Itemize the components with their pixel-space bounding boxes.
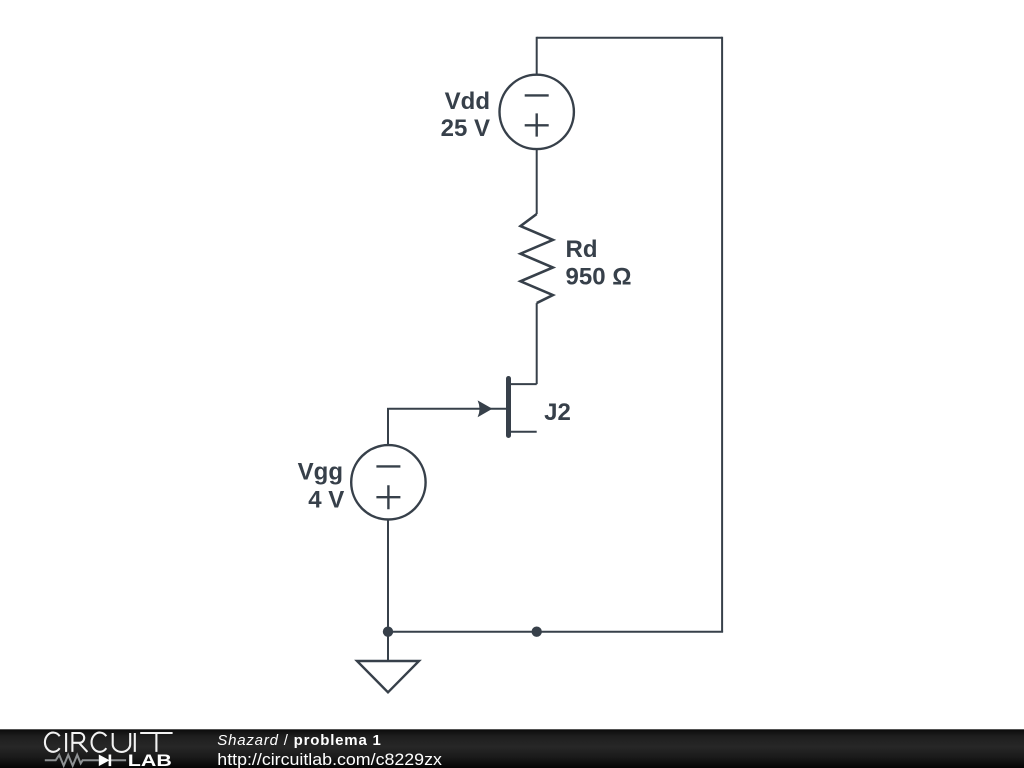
- svg-text:LAB: LAB: [128, 752, 172, 768]
- wire from resistor Rd to drain of J2: [536, 303, 538, 384]
- svg-text:Vgg: Vgg: [298, 459, 343, 486]
- svg-text:4 V: 4 V: [308, 487, 344, 514]
- ground: [357, 661, 419, 692]
- J2 drain lead: [509, 383, 537, 385]
- voltage source Vdd: [500, 75, 574, 149]
- J2 gate channel bar: [506, 379, 511, 436]
- svg-text:J2: J2: [544, 399, 571, 426]
- J2 source lead: [509, 431, 537, 433]
- wire from Vdd minus terminal down to resistor Rd: [536, 149, 538, 214]
- wire gate corner down to Vgg positive terminal: [387, 408, 389, 445]
- transistor J2 (n-channel JFET): [389, 379, 537, 436]
- junction node at Vgg / ground / bottom net: [383, 627, 393, 637]
- label Vdd 25 V: [441, 88, 490, 142]
- CircuitLab logo wordmark CIRCUIT: [45, 733, 173, 752]
- wire bottom horizontal net: [388, 631, 723, 633]
- svg-text:25 V: 25 V: [441, 115, 490, 142]
- label Rd 950 Ω: [566, 236, 632, 291]
- voltage source Vgg: [351, 445, 425, 519]
- wire top horizontal from Vdd branch to right branch: [537, 37, 722, 39]
- wire stub from bottom net to ground symbol: [387, 632, 389, 661]
- wire from Vgg bottom to ground net: [387, 520, 389, 632]
- label J2: [544, 399, 571, 426]
- junction node at J2 source / bottom net: [532, 627, 542, 637]
- wire from top rail down to Vdd positive terminal: [536, 37, 538, 75]
- svg-text:Rd: Rd: [566, 236, 598, 263]
- svg-text:Vdd: Vdd: [445, 88, 490, 115]
- resistor Rd: [521, 214, 553, 303]
- CircuitLab logo text LAB: [128, 752, 172, 768]
- svg-text:950 Ω: 950 Ω: [566, 264, 632, 291]
- label Vgg 4 V: [298, 459, 345, 514]
- wire right vertical branch: [721, 37, 723, 632]
- svg-text:Shazard / problema 1: Shazard / problema 1: [217, 732, 381, 749]
- svg-text:http://circuitlab.com/c8229zx: http://circuitlab.com/c8229zx: [217, 751, 442, 768]
- footer title: Shazard / problema 1: [217, 732, 442, 768]
- J2 gate lead with arrow: [389, 408, 509, 410]
- CircuitLab logo resistor-diode glyph: [45, 755, 126, 767]
